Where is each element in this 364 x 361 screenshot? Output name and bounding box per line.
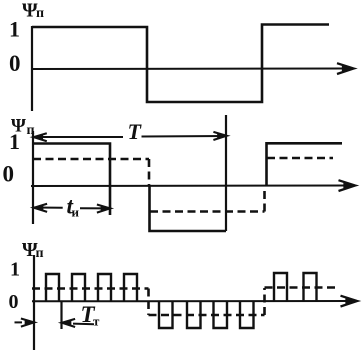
tick T_t end plot3	[60, 301, 62, 329]
dashed rise plot3	[263, 288, 266, 315]
dimension t_i plot2	[34, 204, 110, 213]
dashed drop plot2	[148, 159, 151, 186]
square wave plot1	[32, 25, 329, 103]
dashed rise plot2	[263, 187, 266, 212]
Y axis plot1	[31, 26, 33, 111]
svg-text:0: 0	[3, 162, 15, 187]
dashed top-right level plot3	[265, 286, 336, 289]
solid rise and top-right plot2	[267, 143, 343, 186]
dashed negative level plot3	[149, 314, 265, 317]
Y axis plot3	[33, 255, 35, 350]
X axis plot3 with arrow	[32, 296, 357, 307]
negative pulse 4 plot3	[240, 301, 254, 328]
svg-text:п: п	[36, 6, 44, 21]
svg-text:0: 0	[9, 291, 19, 313]
label psi_p plot1	[22, 0, 44, 22]
svg-text:1: 1	[9, 129, 20, 154]
dashed drop plot3	[147, 289, 150, 316]
dashed positive level plot2	[33, 158, 149, 161]
X axis plot1 with arrow	[31, 63, 354, 74]
tick T end plot2	[225, 115, 227, 231]
svg-text:0: 0	[9, 51, 21, 76]
positive pulse 1 plot3	[46, 274, 59, 301]
negative pulse 3 plot3	[214, 301, 228, 328]
Y axis plot2	[32, 131, 34, 224]
positive pulse 2 plot3	[72, 274, 85, 301]
label psi_p plot3	[22, 239, 44, 261]
label psi_p plot2	[11, 116, 35, 139]
X axis plot2 with arrow	[31, 180, 355, 191]
positive pulse 5 plot3	[274, 273, 287, 301]
solid negative segment plot2	[150, 186, 227, 231]
svg-text:T: T	[128, 119, 143, 144]
positive pulse 3 plot3	[98, 274, 111, 301]
svg-text:1: 1	[10, 259, 20, 281]
dimension T_t arrows plot3	[15, 319, 95, 328]
dashed negative level plot2	[150, 210, 265, 213]
svg-text:т: т	[93, 314, 100, 329]
positive pulse 6 plot3	[304, 273, 317, 301]
svg-text:и: и	[72, 205, 80, 220]
positive pulse 4 plot3	[124, 274, 137, 301]
label T_t plot3	[81, 302, 101, 329]
negative pulse 2 plot3	[187, 301, 201, 328]
svg-text:п: п	[36, 246, 44, 261]
label t_i plot2	[67, 194, 80, 220]
solid pulse plot2	[33, 144, 110, 216]
svg-text:1: 1	[9, 17, 20, 42]
dimension T plot2	[34, 132, 227, 141]
dashed top-right level plot2	[267, 157, 333, 160]
dashed positive level plot3	[32, 287, 149, 290]
negative pulse 1 plot3	[159, 301, 173, 328]
